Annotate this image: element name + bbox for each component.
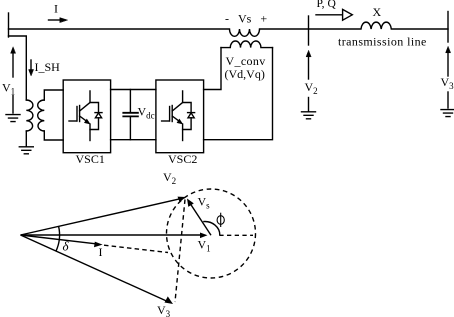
wire main transmission bus line with series winding Vs and line reactance X [9,22,449,36]
node V3 bus bar (right) [447,12,449,43]
circle Vs locus (dashed) [167,189,256,278]
wire VSC2 to series converter left [204,48,221,90]
op-amp U2 VSC2 box [156,80,204,153]
vector I phasor [21,235,99,244]
arrow V3 voltage (up) [446,47,451,53]
arrowhead V2 phasor [178,197,187,203]
node bus V1 (left bus bar) [8,13,10,37]
label phi [217,213,224,227]
svg-text:I: I [99,245,103,259]
wire DC bus bottom VSC1 to VSC2 [111,139,156,141]
transformer T_shunt primary winding [26,100,33,131]
ground (V3) [441,110,454,117]
wire I dashed extension [104,245,168,252]
svg-text:I_SH: I_SH [35,60,61,74]
vector V1 phasor (solid part) [21,234,203,236]
svg-text:VSC2: VSC2 [168,152,197,166]
svg-text:- Vs +: - Vs + [225,12,267,26]
angle arc delta [56,226,60,251]
arrow V1 voltage (up) [11,47,16,53]
arrow I_SH shunt current [30,60,32,70]
ground (V1) [6,115,20,122]
wire dashed chord V2 tip to V3 tip [175,200,185,303]
wire primary to ground [25,131,27,146]
ground (V2) [302,112,316,119]
wire secondary top to VSC1 [44,90,63,100]
wire DC bus top VSC1 to VSC2 [111,89,156,91]
capacitor C_dc [129,90,131,113]
vector V3 phasor [21,235,169,302]
arrow P,Q (hollow) [316,14,343,16]
node V2 bus bar [308,16,310,45]
svg-text:P, Q: P, Q [317,0,337,10]
wire shunt tap from bus V1 [9,36,27,100]
svg-text:I: I [54,2,58,16]
wire VSC2 to series converter bottom [204,48,273,140]
svg-text:V_conv: V_conv [226,54,266,68]
transistor Q1 IGBT with diode inside VSC1 [69,91,102,141]
arrowhead V1 phasor [200,233,208,239]
transformer T_shunt secondary winding [38,100,45,131]
arrowhead V3 phasor [165,296,174,304]
vector V2 phasor [21,199,182,235]
angle arc phi [203,222,220,236]
svg-text:X: X [373,5,382,19]
arrowhead Vs phasor [187,199,194,207]
svg-text:transmission line: transmission line [338,34,427,48]
svg-text:VSC1: VSC1 [76,152,105,166]
svg-text:(Vd,Vq): (Vd,Vq) [225,67,265,81]
arrowhead I phasor [94,242,103,248]
wire V1 dashed extension [219,234,253,236]
svg-text:δ: δ [63,239,70,254]
vector Vs phasor [190,203,212,236]
transformer T_series secondary winding (V_conv top edge) [221,41,273,48]
op-amp U1 VSC1 box [63,80,110,153]
transistor Q2 IGBT with diode inside VSC2 [162,91,195,141]
arrow I on bus [49,19,62,21]
arrow V2 voltage (up) [306,51,311,57]
ground (shunt transformer) [19,147,33,154]
wire secondary bottom to VSC1 [44,131,63,140]
